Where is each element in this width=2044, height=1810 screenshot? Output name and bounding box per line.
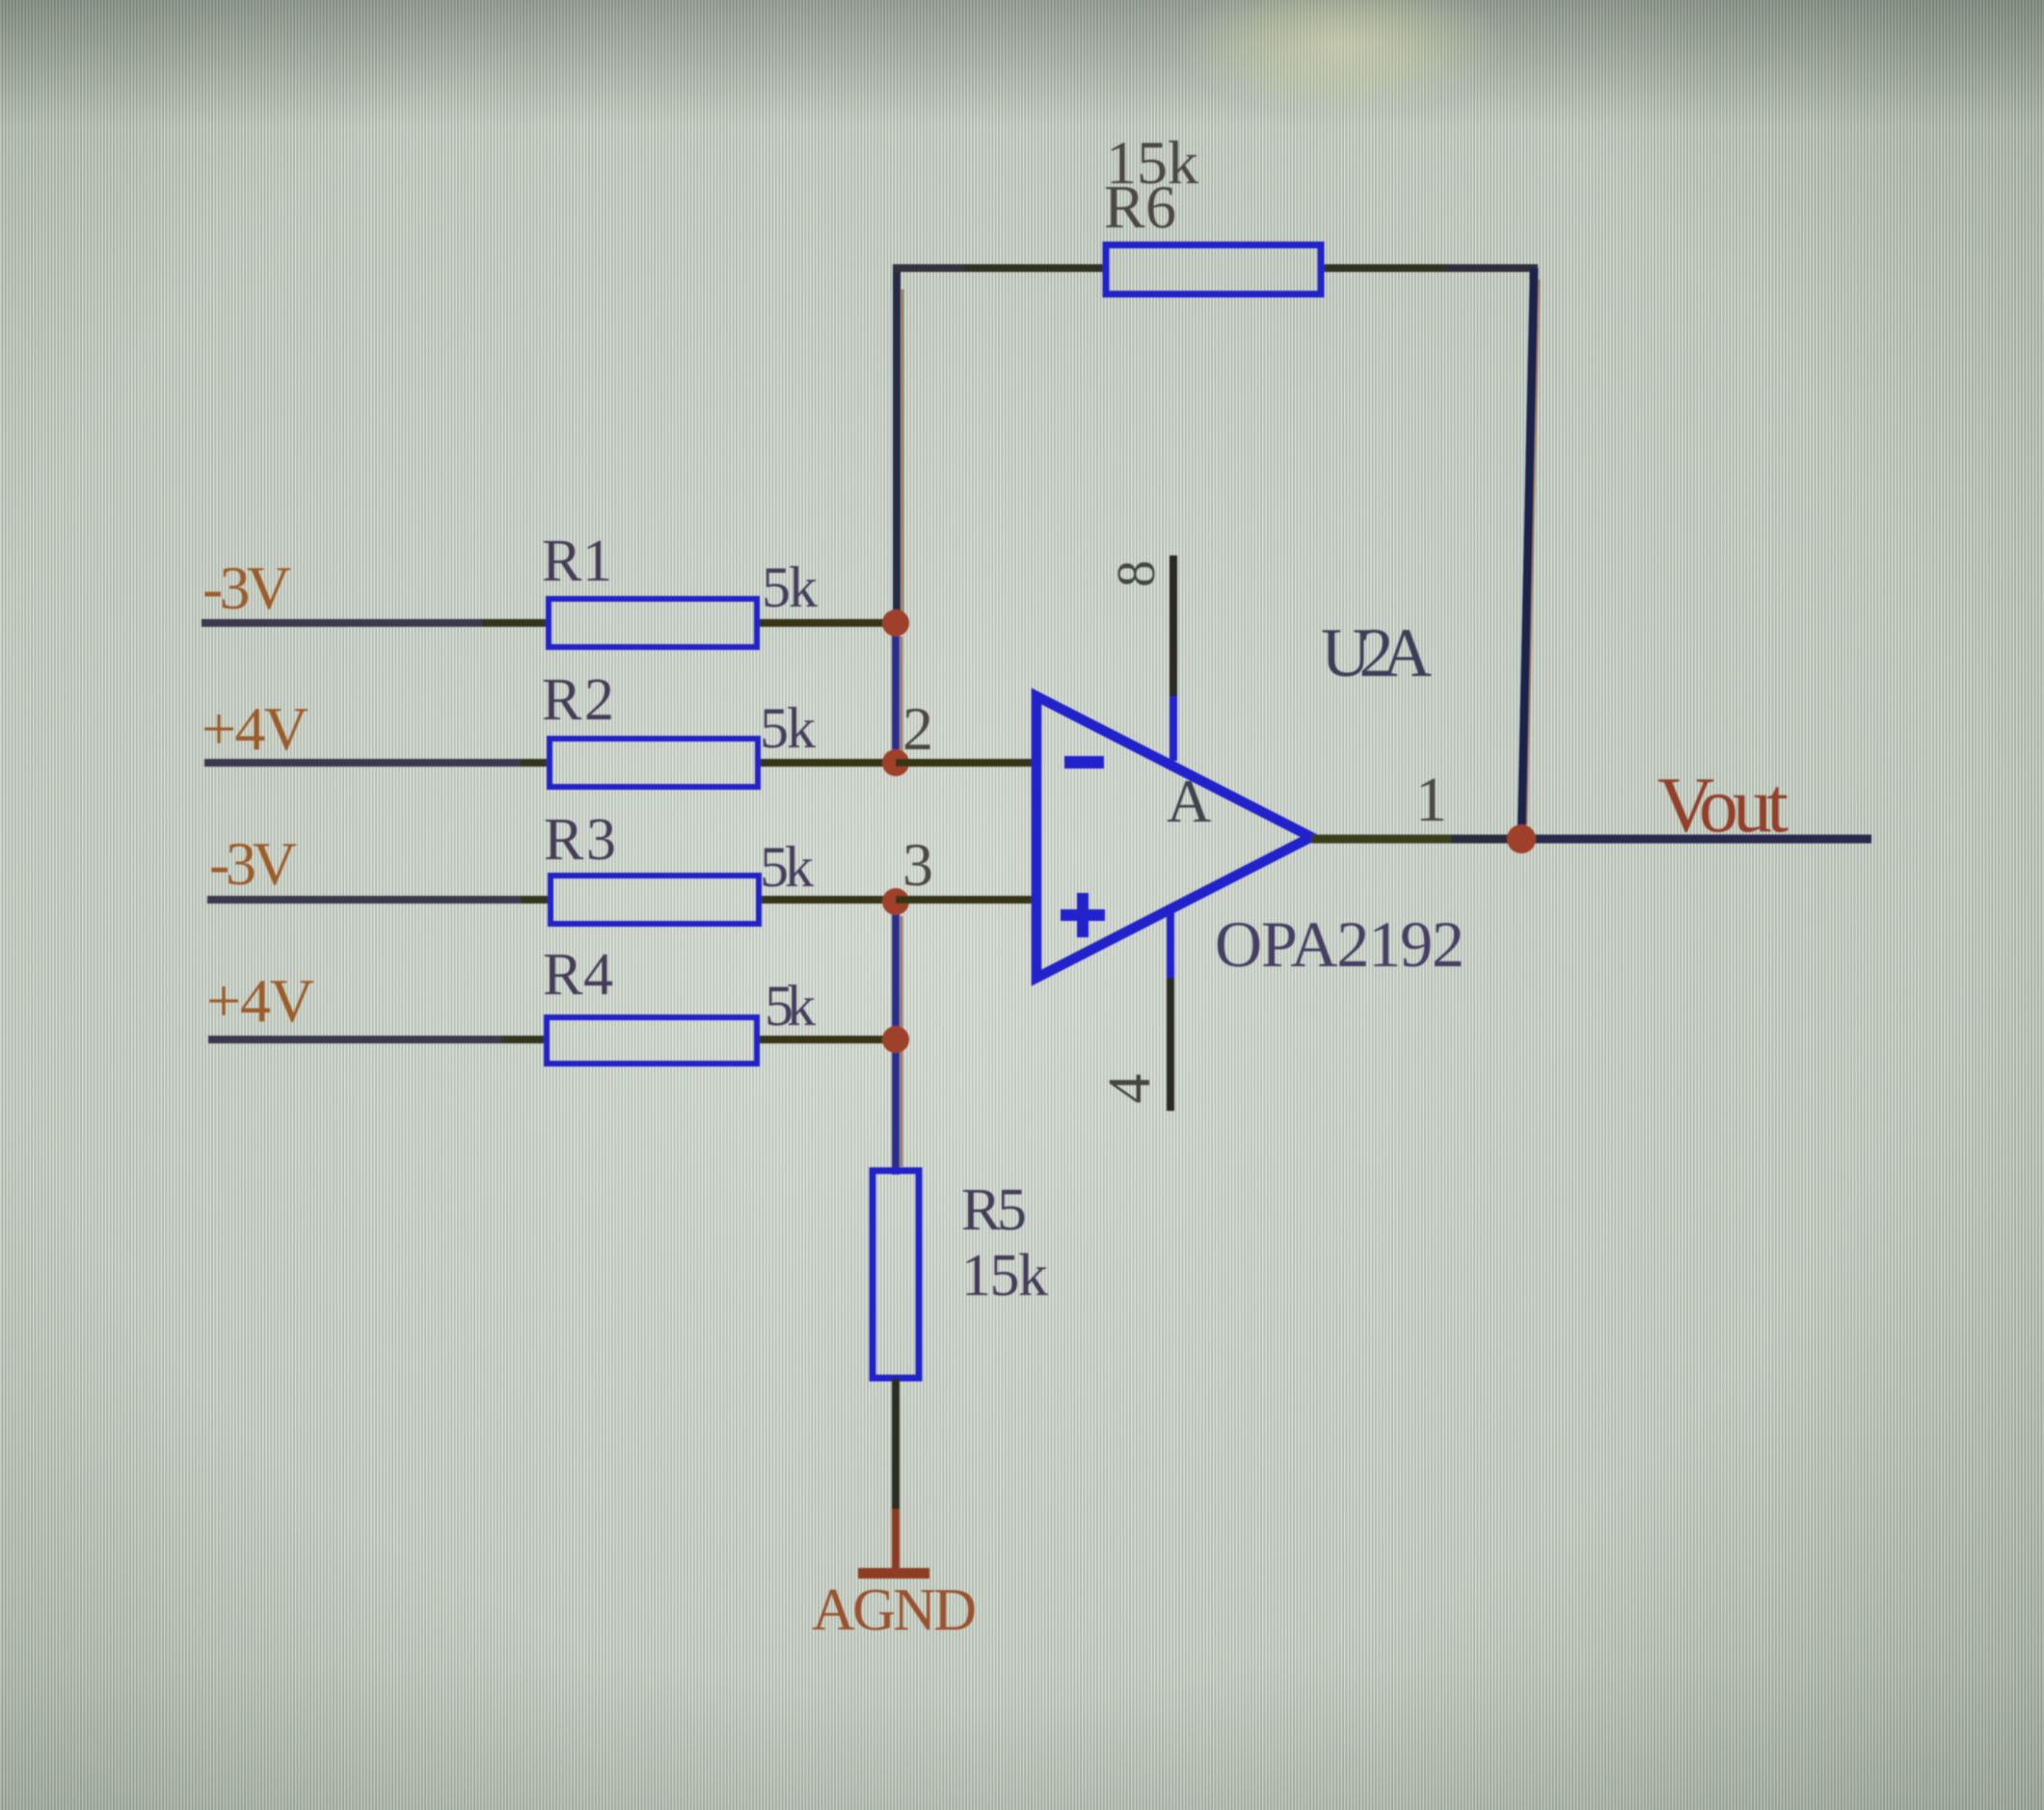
svg-text:3: 3: [902, 830, 933, 899]
wire R5 to ground upper: [892, 1378, 900, 1509]
resistor R2: [550, 739, 758, 787]
wire fringe node vertical upper: [901, 636, 903, 752]
wire pin3 to op-amp: [896, 896, 1040, 904]
pin 8 line upper: [1170, 555, 1177, 696]
svg-text:4: 4: [1097, 1074, 1163, 1104]
wire fringe right vertical: [1526, 280, 1539, 824]
op-amp U2A triangle: [1036, 696, 1311, 978]
wire input4 right: [757, 1036, 896, 1043]
resistor R6: [1106, 245, 1321, 294]
wire node vertical R3-R4: [892, 902, 900, 1038]
junction node inverting (R1 out): [882, 609, 909, 636]
svg-text:15k: 15k: [961, 1243, 1048, 1309]
wire node vertical R1-R2: [892, 623, 900, 763]
wire fringe node vertical: [901, 916, 903, 1167]
svg-text:2: 2: [902, 694, 933, 763]
svg-text:R4: R4: [543, 942, 613, 1008]
svg-text:8: 8: [1107, 560, 1167, 587]
op-amp minus symbol: [1064, 756, 1104, 769]
pin 4 line lower: [1167, 978, 1174, 1111]
svg-text:R1: R1: [542, 528, 612, 594]
wire feedback left vertical: [893, 268, 901, 623]
resistor R1: [549, 599, 757, 647]
svg-text:-3V: -3V: [202, 554, 291, 622]
svg-text:U2A: U2A: [1321, 614, 1432, 691]
svg-text:R3: R3: [544, 807, 616, 873]
svg-text:R2: R2: [542, 667, 614, 733]
resistor R5: [873, 1171, 919, 1378]
junction node non-inverting (R3 out): [882, 888, 909, 915]
wire feedback right vertical: [1521, 268, 1534, 835]
svg-text:Vout: Vout: [1657, 761, 1788, 849]
wire pin2 to op-amp: [896, 759, 1040, 767]
svg-text:OPA2192: OPA2192: [1215, 907, 1465, 981]
op-amp plus symbol: [1061, 893, 1105, 937]
svg-text:5k: 5k: [760, 696, 816, 760]
wire top feedback left: [893, 264, 964, 272]
svg-text:AGND: AGND: [812, 1578, 977, 1643]
svg-text:5k: 5k: [760, 835, 814, 899]
junction node inverting (R2 out): [882, 749, 909, 776]
pin 4 line upper (blue): [1167, 909, 1174, 978]
ground AGND symbol: [858, 1568, 929, 1579]
svg-text:5k: 5k: [765, 974, 816, 1038]
wire output left: [1311, 835, 1451, 844]
wire input1 right: [757, 619, 896, 627]
wire input3 right: [759, 896, 896, 904]
svg-text:-3V: -3V: [209, 829, 297, 898]
pin 8 line lower (blue): [1170, 696, 1177, 761]
svg-text:5k: 5k: [762, 555, 818, 619]
wire R5 to ground lower (red): [892, 1509, 900, 1569]
svg-text:R5: R5: [961, 1177, 1027, 1243]
wire input2 left: [204, 759, 521, 767]
wire input2 right: [758, 759, 896, 767]
junction node non-inverting (R4 out): [882, 1026, 909, 1053]
junction node output: [1507, 824, 1536, 853]
svg-text:R6: R6: [1104, 173, 1176, 241]
wire input1 left: [202, 619, 482, 627]
svg-text:A: A: [1167, 767, 1211, 835]
svg-text:1: 1: [1415, 765, 1447, 835]
wire input3 left: [207, 896, 521, 904]
wire node vertical R4-R5: [892, 1040, 900, 1175]
wire fringe left vertical: [901, 289, 904, 617]
svg-text:+4V: +4V: [202, 694, 309, 763]
resistor R3: [551, 876, 759, 924]
wire input4 left: [208, 1036, 501, 1043]
wire top feedback right: [1318, 264, 1446, 272]
wire output right (Vout): [1521, 835, 1871, 844]
svg-text:+4V: +4V: [206, 966, 314, 1035]
resistor R4: [547, 1017, 757, 1064]
